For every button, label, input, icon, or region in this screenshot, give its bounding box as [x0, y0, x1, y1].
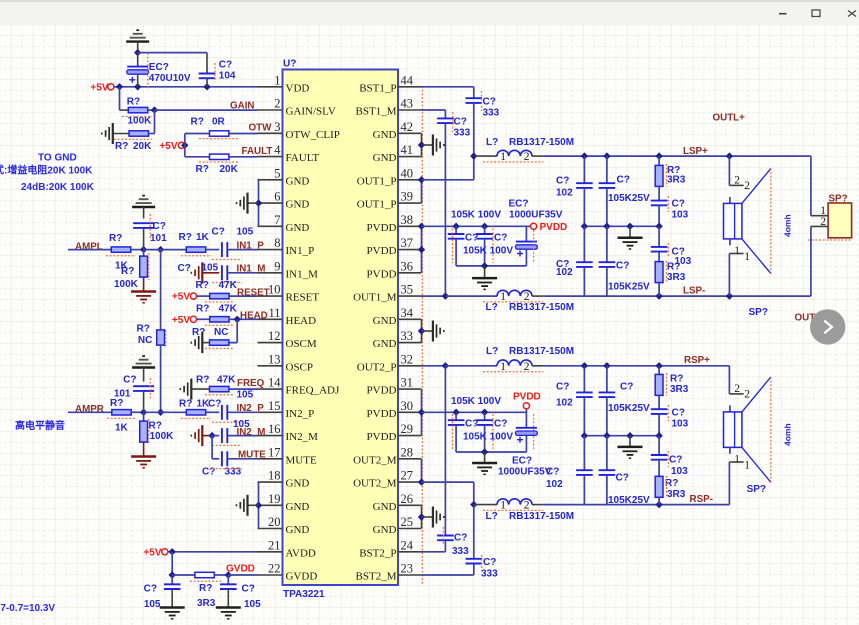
svg-text:RB1317-150M: RB1317-150M	[509, 511, 574, 522]
svg-text:105: 105	[144, 599, 161, 610]
ground filter ch2	[618, 447, 643, 458]
inductor L? RB1317-150M OUT2_M	[474, 499, 574, 522]
svg-text:+5V: +5V	[143, 547, 161, 558]
svg-text:C?: C?	[620, 382, 633, 393]
wire LSP- rail	[543, 292, 811, 299]
designator U?	[283, 59, 296, 70]
svg-text:C?: C?	[556, 382, 569, 393]
svg-text:C?: C?	[616, 473, 629, 484]
svg-text:40: 40	[401, 166, 414, 180]
ground IN1_M	[178, 262, 220, 283]
pin 1 VDD	[258, 73, 310, 94]
svg-text:105: 105	[244, 599, 261, 610]
svg-text:OTW_CLIP: OTW_CLIP	[286, 129, 340, 141]
svg-text:IN2_P: IN2_P	[237, 403, 265, 414]
svg-text:11: 11	[268, 306, 280, 320]
svg-text:0.7-0.7=10.3V: 0.7-0.7=10.3V	[0, 603, 55, 614]
svg-text:3R3: 3R3	[197, 598, 216, 609]
svg-text:2: 2	[274, 97, 280, 111]
svg-text:C?: C?	[546, 467, 559, 478]
capacitor C? 100V PVDD ch1	[476, 226, 507, 266]
svg-text:RSP-: RSP-	[690, 494, 713, 505]
pin 43 BST1_M	[356, 97, 422, 118]
svg-text:3R3: 3R3	[667, 174, 686, 185]
capacitor C? 102 upper left ch2	[556, 366, 593, 436]
svg-text:OTW: OTW	[249, 123, 273, 134]
wire RSP- rail	[543, 501, 729, 508]
svg-text:TPA3221: TPA3221	[283, 589, 325, 600]
node NC link top	[157, 246, 164, 253]
value 4omh ch2	[783, 423, 793, 446]
power +5V AVDD	[143, 547, 167, 558]
svg-text:BST2_M: BST2_M	[356, 571, 397, 583]
resistor R? 3R3 zobel lower ch1	[655, 261, 686, 296]
node AMPL RC	[140, 246, 147, 253]
svg-text:TO GND: TO GND	[38, 152, 77, 163]
svg-text:103: 103	[672, 419, 689, 430]
svg-text:44: 44	[401, 73, 414, 87]
svg-text:105K 100V: 105K 100V	[463, 245, 513, 256]
svg-text:100K: 100K	[150, 431, 175, 442]
capacitor C? 105K25V lower right ch1	[599, 226, 650, 296]
svg-text:FAULT: FAULT	[286, 152, 320, 164]
wire AMPR to coupling	[144, 411, 187, 413]
svg-text:24dB:20K 100K: 24dB:20K 100K	[21, 182, 95, 193]
resistor R? 3R3 zobel lower ch2	[655, 476, 686, 505]
capacitor EC? 1000UF35V ch1	[509, 199, 563, 266]
svg-text:OUTL+: OUTL+	[713, 112, 746, 123]
svg-text:式:增益电阻20K 100K: 式:增益电阻20K 100K	[0, 164, 93, 177]
svg-text:C?: C?	[556, 175, 569, 186]
svg-text:NC: NC	[138, 335, 152, 346]
wire RSP+ rail	[543, 362, 729, 369]
svg-text:GAIN: GAIN	[230, 100, 255, 111]
svg-text:32: 32	[401, 352, 414, 366]
svg-text:1: 1	[734, 245, 740, 257]
ground (earth) above C? 101 AMPL	[132, 196, 155, 219]
pin 10 RESET	[258, 283, 320, 304]
svg-text:333: 333	[481, 569, 498, 580]
pin 40 OUT1_P	[357, 166, 422, 187]
svg-text:10: 10	[268, 283, 281, 297]
svg-text:26: 26	[401, 492, 414, 506]
wire PVDD gnd rail ch1	[456, 262, 526, 277]
node GVDD	[225, 571, 232, 578]
ground pins 18-20	[237, 495, 248, 516]
svg-text:33: 33	[401, 329, 414, 343]
svg-text:L?: L?	[486, 137, 498, 148]
net label IN1_M	[237, 263, 266, 274]
pin 7 GND	[258, 213, 310, 234]
pin 44 BST1_P	[359, 73, 421, 94]
svg-text:OUT2_M: OUT2_M	[353, 454, 397, 466]
value 105K 100V lower ch1	[463, 245, 513, 256]
svg-text:PVDD: PVDD	[367, 222, 397, 234]
wire BST1_M	[422, 110, 446, 118]
nav circle button	[810, 309, 845, 344]
svg-text:R?: R?	[110, 398, 123, 409]
svg-text:23: 23	[401, 562, 414, 576]
ERC marker line right pin column	[421, 86, 423, 585]
net label GAIN	[230, 100, 255, 111]
annotation 高电平静音	[15, 419, 65, 432]
pin 20 GND	[258, 515, 310, 536]
svg-text:18: 18	[268, 469, 281, 483]
svg-text:13: 13	[268, 352, 281, 366]
svg-text:333: 333	[483, 108, 500, 119]
svg-text:28: 28	[401, 445, 414, 459]
svg-text:2: 2	[734, 383, 740, 395]
annotation TO GND	[38, 152, 77, 163]
svg-text:GND: GND	[373, 338, 397, 350]
annotation 24dB	[21, 182, 95, 193]
capacitor C? 103 zobel upper ch2	[651, 405, 689, 436]
svg-text:OUT2_P: OUT2_P	[357, 361, 397, 373]
capacitor C? 102 lower left ch1	[556, 226, 593, 296]
svg-text:RB1317-150M: RB1317-150M	[509, 302, 574, 313]
svg-text:9: 9	[274, 259, 280, 273]
node OUT2_P	[442, 362, 449, 369]
node VDD top junction	[134, 49, 141, 56]
maximize button	[812, 10, 820, 17]
ground pins 34-33	[433, 321, 444, 342]
svg-text:47K: 47K	[219, 280, 238, 291]
pin 32 OUT2_P	[357, 352, 422, 373]
node GAIN	[151, 106, 158, 113]
svg-text:1000UF35V: 1000UF35V	[509, 210, 563, 221]
wire OUT2_P	[422, 365, 446, 367]
capacitor C? 105 IN1_M	[212, 265, 258, 282]
pin 34 GND	[373, 306, 422, 327]
capacitor C? 105 GVDD filter	[220, 575, 261, 610]
node AMPR RC	[140, 409, 147, 416]
svg-text:103: 103	[672, 209, 689, 220]
svg-text:20K: 20K	[133, 141, 152, 152]
svg-text:4omh: 4omh	[783, 423, 793, 446]
pin 15 IN2_P	[258, 399, 315, 420]
power +5V RESET	[172, 292, 197, 303]
svg-text:43: 43	[401, 97, 414, 111]
svg-text:BST1_P: BST1_P	[359, 82, 396, 94]
svg-text:2: 2	[744, 389, 750, 401]
ground FREQ_ADJ	[180, 379, 191, 400]
svg-text:EC?: EC?	[509, 199, 529, 210]
capacitor C? 102 upper left ch1	[556, 156, 593, 226]
svg-text:C?: C?	[212, 227, 225, 238]
inductor L? RB1317-150M OUT1_M	[445, 290, 574, 313]
capacitor C? 105K25V upper right ch1	[599, 156, 650, 226]
value 105K 100V lower ch2	[463, 431, 513, 442]
node NC link bottom	[157, 409, 164, 416]
svg-text:EC?: EC?	[512, 455, 532, 466]
capacitor C? 333 BST1_P	[466, 91, 500, 156]
svg-text:GND: GND	[373, 315, 397, 327]
power +5V HEAD	[172, 315, 197, 326]
svg-text:OSCP: OSCP	[286, 361, 314, 373]
pin 11 HEAD	[258, 306, 317, 327]
net label IN1_P	[237, 240, 265, 251]
net label HEAD	[240, 311, 268, 322]
capacitor C? 103 zobel lower ch2	[651, 436, 688, 477]
resistor R? NC HEAD pulldown	[192, 327, 233, 349]
svg-text:RB1317-150M: RB1317-150M	[509, 346, 574, 357]
capacitor C? 102 lower left ch2	[546, 436, 593, 505]
svg-text:38: 38	[401, 213, 414, 227]
pin 37 PVDD	[367, 236, 422, 257]
svg-text:27: 27	[401, 469, 414, 483]
svg-text:C?: C?	[672, 198, 685, 209]
pin 35 OUT1_M	[353, 283, 421, 304]
svg-text:PVDD: PVDD	[367, 245, 397, 257]
svg-text:3R3: 3R3	[667, 489, 686, 500]
wire BST1_P	[422, 87, 474, 98]
svg-text:R?: R?	[670, 373, 683, 384]
svg-text:GVDD: GVDD	[226, 564, 255, 575]
ground pins 5-7	[237, 193, 248, 214]
wire GND pins 42-41	[418, 133, 433, 156]
svg-text:FREQ: FREQ	[237, 378, 265, 389]
svg-text:29: 29	[401, 422, 414, 436]
wire LSP+ rail	[543, 152, 811, 159]
svg-text:25: 25	[401, 515, 414, 529]
pin 22 GVDD	[258, 562, 318, 583]
pin 13 OSCP	[258, 352, 314, 373]
svg-text:C?: C?	[483, 97, 496, 108]
wire top to C104	[138, 53, 207, 74]
svg-text:19: 19	[268, 492, 281, 506]
svg-text:PVDD: PVDD	[367, 268, 397, 280]
ground IN2_M	[191, 425, 212, 446]
part name TPA3221	[283, 589, 325, 600]
svg-text:3R3: 3R3	[670, 384, 689, 395]
connector SP? ch1	[808, 194, 852, 241]
net label AMPR	[75, 404, 104, 415]
resistor R? 47K RESET	[196, 280, 258, 302]
capacitor C? 104	[199, 60, 236, 87]
svg-text:C?: C?	[669, 454, 682, 465]
svg-text:3: 3	[274, 120, 280, 134]
svg-text:GVDD: GVDD	[286, 571, 318, 583]
svg-text:R?: R?	[196, 374, 209, 385]
svg-text:102: 102	[556, 398, 573, 409]
resistor R? 1K AMPR	[68, 398, 144, 433]
resistor R? 3R3 GVDD	[172, 572, 228, 609]
pin 14 FREQ_ADJ	[258, 376, 341, 397]
svg-text:RESET: RESET	[237, 288, 270, 299]
svg-text:BST1_M: BST1_M	[356, 106, 397, 118]
pin 24 BST2_P	[359, 538, 421, 559]
svg-text:+5V: +5V	[159, 141, 177, 152]
pin 6 GND	[258, 190, 310, 211]
speaker SP? ch2	[724, 366, 771, 505]
IC U? TPA3221 body	[283, 70, 399, 586]
resistor R? 20K gain divider	[113, 110, 155, 152]
node OUT2_M	[470, 501, 477, 508]
pin 23 BST2_M	[356, 562, 422, 583]
svg-text:8: 8	[274, 236, 280, 250]
wire GND pins 34-33	[418, 319, 433, 342]
svg-text:GND: GND	[286, 524, 310, 536]
net label RSP+	[684, 355, 710, 366]
svg-text:47K: 47K	[217, 374, 236, 385]
capacitor C? 333 BST2_P	[437, 366, 469, 557]
svg-text:R?: R?	[196, 164, 209, 175]
node IN2_M gnd	[208, 432, 215, 439]
power PVDD ch2	[513, 391, 541, 409]
wire PVDD pins 31-29	[418, 389, 425, 436]
svg-text:OUT1_M: OUT1_M	[353, 292, 397, 304]
svg-text:20K: 20K	[220, 164, 239, 175]
svg-text:105K25V: 105K25V	[608, 193, 650, 204]
svg-text:HEAD: HEAD	[286, 315, 317, 327]
svg-text:2: 2	[744, 180, 750, 192]
svg-text:FAULT: FAULT	[242, 146, 273, 157]
svg-text:1K: 1K	[115, 422, 129, 433]
svg-text:RB1317-150M: RB1317-150M	[509, 137, 574, 148]
svg-text:LSP-: LSP-	[683, 285, 705, 296]
capacitor C? 105 AVDD filter	[144, 575, 181, 610]
svg-text:C?: C?	[208, 398, 221, 409]
svg-text:39: 39	[401, 190, 414, 204]
capacitor C? 101 AMPL	[133, 214, 167, 250]
pin 42 GND	[373, 120, 422, 141]
speaker SP? ch1	[724, 156, 771, 318]
pin 4 FAULT	[258, 143, 320, 164]
resistor R? 20K FAULT	[185, 154, 258, 175]
svg-text:BST2_P: BST2_P	[359, 547, 396, 559]
pin 33 GND	[373, 329, 422, 350]
svg-text:31: 31	[401, 376, 414, 390]
svg-text:L?: L?	[486, 346, 498, 357]
svg-text:GND: GND	[286, 501, 310, 513]
wire GVDD to pin 22	[228, 574, 257, 576]
svg-text:1: 1	[274, 73, 280, 87]
svg-text:IN1_M: IN1_M	[237, 263, 266, 274]
svg-text:105K 100V: 105K 100V	[463, 431, 513, 442]
svg-text:R?: R?	[121, 266, 134, 277]
svg-text:4omh: 4omh	[783, 214, 793, 237]
net label FREQ	[237, 378, 265, 389]
svg-text:RESET: RESET	[286, 292, 320, 304]
capacitor C? 105K25V lower right ch2	[599, 436, 650, 506]
svg-text:FREQ_ADJ: FREQ_ADJ	[286, 385, 341, 397]
svg-text:IN1_P: IN1_P	[237, 240, 265, 251]
svg-text:NC: NC	[214, 327, 228, 338]
wire IN2_M gnd to MUTE cap	[212, 436, 219, 459]
ground GVDD cap	[216, 608, 241, 619]
wire PVDD rail ch2	[422, 409, 527, 416]
pin 31 PVDD	[367, 376, 422, 397]
wire OUT2_M pins 28-27	[418, 459, 474, 505]
svg-text:35: 35	[401, 283, 414, 297]
svg-text:+5V: +5V	[172, 315, 190, 326]
capacitor C? 333 BST2_M	[466, 505, 499, 580]
net label RSP-	[690, 494, 713, 505]
capacitor C? 103 zobel upper ch1	[651, 196, 689, 226]
ground at R? 20K	[102, 123, 113, 144]
svg-text:IN2_M: IN2_M	[237, 427, 266, 438]
svg-text:U?: U?	[283, 59, 296, 70]
wire GND pins 5-7	[248, 180, 263, 227]
node zobel mid ch2	[655, 432, 662, 439]
svg-text:21: 21	[268, 538, 281, 552]
svg-text:IN1_M: IN1_M	[286, 268, 319, 280]
svg-text:GND: GND	[373, 152, 397, 164]
node OUT1_P	[470, 152, 477, 159]
svg-text:1: 1	[734, 454, 740, 466]
svg-text:PVDD: PVDD	[367, 385, 397, 397]
svg-text:2: 2	[734, 175, 740, 187]
wire PVDD gnd rail ch2	[456, 448, 526, 462]
wire connector pin2 to LSP-	[810, 226, 812, 296]
pin 17 MUTE	[258, 445, 317, 466]
svg-text:105: 105	[237, 389, 254, 400]
net label MUTE	[238, 449, 266, 460]
wire connector pin1 to LSP+	[810, 156, 812, 216]
pin 29 PVDD	[367, 422, 422, 443]
net label GVDD	[226, 564, 255, 575]
svg-text:105: 105	[237, 227, 254, 238]
svg-text:1: 1	[744, 460, 750, 472]
svg-text:OUT2_M: OUT2_M	[353, 478, 397, 490]
svg-text:C?: C?	[617, 175, 630, 186]
ground pins 42-41	[433, 135, 444, 156]
pin 18 GND	[258, 469, 310, 490]
net label OUTL-	[795, 312, 825, 323]
resistor R? 3R3 zobel upper ch2	[655, 366, 689, 409]
capacitor EC? 470U10V	[127, 53, 191, 90]
svg-text:SP?: SP?	[749, 307, 768, 318]
svg-text:C?: C?	[672, 408, 685, 419]
net label AMPL	[75, 241, 103, 252]
pin 3 OTW_CLIP	[258, 120, 340, 141]
svg-text:1: 1	[744, 251, 750, 263]
svg-text:333: 333	[225, 466, 242, 477]
svg-text:105: 105	[202, 262, 219, 273]
capacitor C? 105K PVDD ch2	[448, 412, 479, 452]
net label OTW	[249, 123, 273, 134]
svg-text:4: 4	[274, 143, 281, 157]
svg-text:105K 100V: 105K 100V	[451, 396, 501, 407]
svg-text:C?: C?	[454, 532, 467, 543]
close button	[848, 11, 856, 17]
svg-text:102: 102	[556, 188, 573, 199]
svg-text:103: 103	[671, 466, 688, 477]
resistor R? 100K AMPL to gnd	[114, 250, 149, 291]
value 4omh ch1	[783, 214, 793, 237]
svg-text:GND: GND	[286, 222, 310, 234]
svg-text:C?: C?	[242, 583, 255, 594]
svg-text:IN2_M: IN2_M	[286, 431, 319, 443]
ground PVDD ch2	[472, 463, 497, 474]
net label RESET	[237, 288, 270, 299]
svg-text:30: 30	[401, 399, 414, 413]
wire BST2_M	[422, 564, 474, 576]
net label FAULT	[242, 146, 273, 157]
svg-text:RSP+: RSP+	[684, 355, 710, 366]
svg-text:37: 37	[401, 236, 414, 250]
pin 36 PVDD	[367, 259, 422, 280]
svg-text:101: 101	[114, 388, 131, 399]
power +5V VDD rail	[90, 83, 257, 94]
pin 39 OUT1_P	[357, 190, 422, 211]
svg-text:IN2_P: IN2_P	[286, 408, 315, 420]
pin 41 GND	[373, 143, 422, 164]
svg-text:+5V: +5V	[90, 83, 108, 94]
pin 30 PVDD	[367, 399, 422, 420]
svg-text:C?: C?	[494, 232, 507, 243]
svg-text:105K 100V: 105K 100V	[451, 210, 501, 221]
